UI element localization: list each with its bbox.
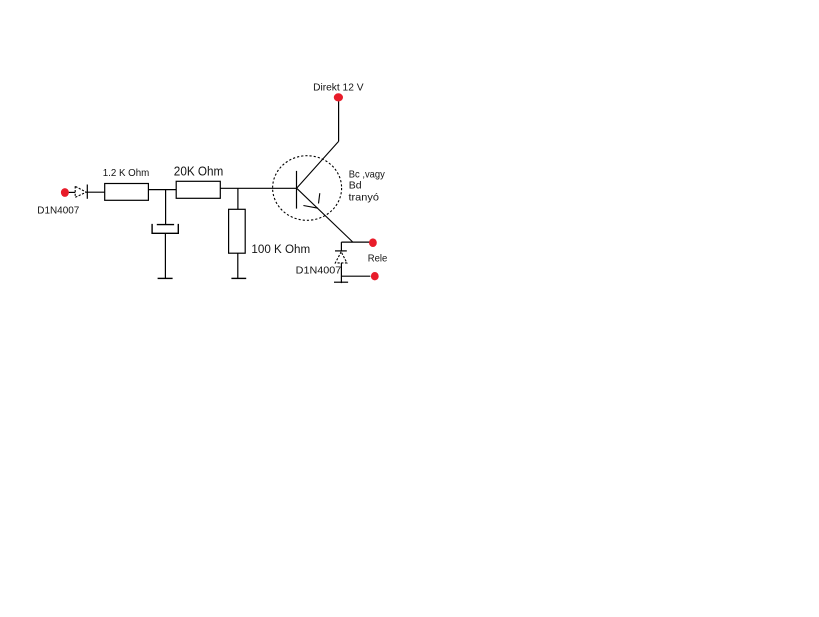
transistor Q1 body circle (dashed) <box>273 156 342 221</box>
resistor R2 body (20K) <box>176 181 220 198</box>
svg-text:tranyó: tranyó <box>349 191 380 203</box>
svg-text:Rele: Rele <box>368 254 388 265</box>
diode D1 cathode bar <box>86 185 88 199</box>
wire IN dot to diode D1 <box>69 191 75 193</box>
relay bottom end bar <box>334 281 348 283</box>
wire R2 to transistor base <box>220 187 296 189</box>
transistor Q1 collector diagonal <box>297 141 339 188</box>
svg-text:D1N4007: D1N4007 <box>296 265 342 276</box>
ground 1 (under capacitor) <box>158 277 173 279</box>
transistor Q1 base bar <box>296 171 298 209</box>
node Direkt 12 V terminal (red dot) <box>334 93 343 101</box>
wire R1 to R2 <box>148 189 176 191</box>
wire relay top corner down to diode D2 <box>340 242 342 251</box>
wire R3 to ground <box>237 253 239 278</box>
node relay top terminal (red dot) <box>369 238 377 247</box>
svg-text:100 K Ohm: 100 K Ohm <box>251 244 310 256</box>
transistor Q1 emitter diagonal <box>297 188 353 242</box>
svg-text:Bc ,vagy: Bc ,vagy <box>349 168 386 180</box>
diode D2 (flyback) triangle pointing up <box>335 252 347 263</box>
svg-text:20K Ohm: 20K Ohm <box>174 164 224 178</box>
junction node 1 wire down to capacitor C1 <box>165 190 167 225</box>
node relay bottom terminal (red dot) <box>371 272 379 280</box>
node IN terminal (red dot) <box>61 188 69 197</box>
transistor Q1 emitter arrow tick vertical <box>319 193 320 203</box>
capacitor C1 top plate <box>157 224 174 226</box>
resistor R1 body <box>105 184 149 201</box>
svg-text:1.2 K Ohm: 1.2 K Ohm <box>103 168 150 179</box>
diode D2 cathode bar <box>335 250 347 252</box>
wire relay bottom (to terminal) <box>341 275 370 277</box>
svg-text:Direkt 12 V: Direkt 12 V <box>313 82 364 93</box>
resistor R3 body (100K, vertical) <box>229 209 246 253</box>
junction node 2 wire down to resistor R3 <box>237 188 239 209</box>
wire relay top (emitter to terminal) <box>341 241 369 243</box>
capacitor C1 bottom cup plate <box>152 224 178 233</box>
wire diode D2 down <box>340 263 342 283</box>
transistor Q1 emitter arrow tick horizontal <box>303 206 318 209</box>
wire diode D1 to resistor R1 <box>87 191 104 193</box>
svg-text:Bd: Bd <box>349 180 362 192</box>
diode D1 (D1N4007) triangle <box>75 186 86 197</box>
wire capacitor C1 to ground <box>164 233 166 278</box>
svg-text:D1N4007: D1N4007 <box>37 205 79 216</box>
wire collector to 12V terminal <box>338 101 340 141</box>
ground 2 (under R3) <box>231 277 246 279</box>
